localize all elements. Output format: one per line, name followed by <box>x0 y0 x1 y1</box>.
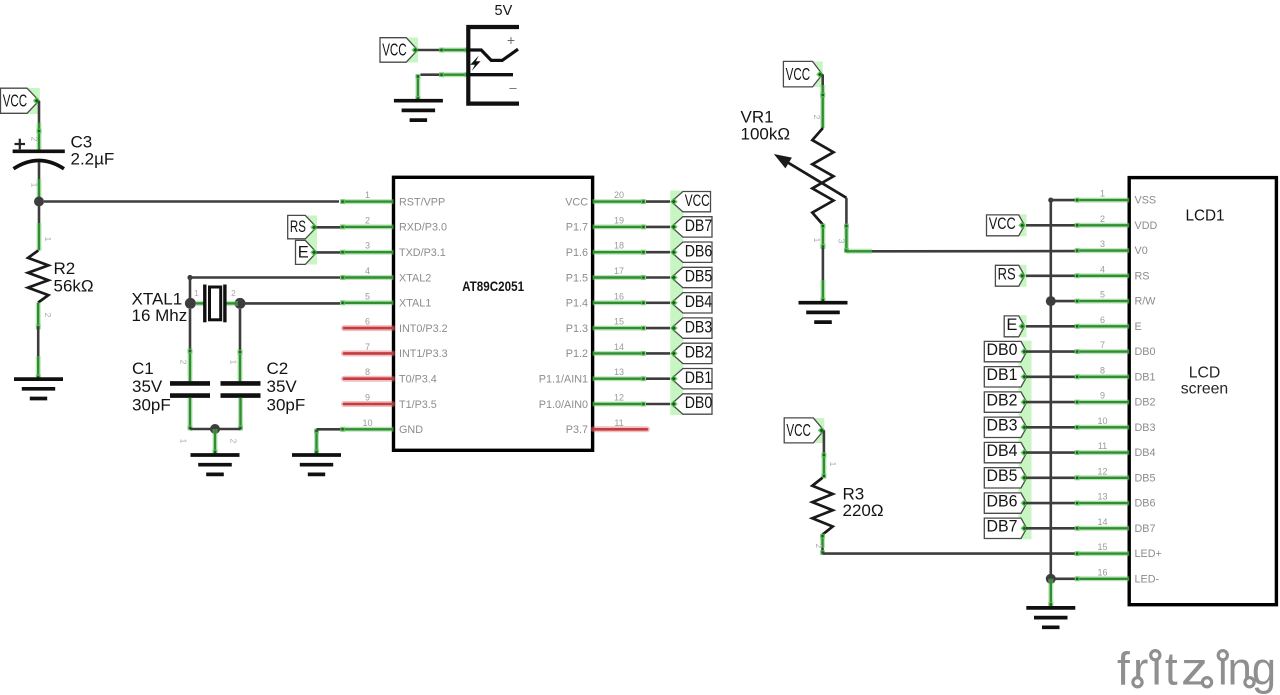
svg-text:XTAL1: XTAL1 <box>399 298 431 310</box>
svg-text:E: E <box>1006 316 1017 334</box>
svg-text:1: 1 <box>365 190 370 200</box>
svg-text:E: E <box>1135 321 1142 333</box>
svg-text:VCC: VCC <box>786 64 811 84</box>
svg-text:1: 1 <box>229 360 239 365</box>
svg-text:12: 12 <box>614 393 624 403</box>
svg-text:DB7: DB7 <box>685 216 713 235</box>
svg-text:1: 1 <box>43 237 53 242</box>
svg-text:11: 11 <box>1098 441 1107 451</box>
svg-text:P1.2: P1.2 <box>566 348 588 360</box>
svg-text:DB6: DB6 <box>1135 498 1156 510</box>
svg-text:E: E <box>298 244 309 262</box>
svg-text:2.2µF: 2.2µF <box>71 149 115 168</box>
svg-text:DB4: DB4 <box>987 441 1018 460</box>
svg-text:220Ω: 220Ω <box>843 501 884 520</box>
svg-text:DB7: DB7 <box>987 517 1018 536</box>
svg-text:12: 12 <box>1097 466 1107 476</box>
svg-text:9: 9 <box>1100 391 1105 401</box>
svg-text:2: 2 <box>30 137 40 142</box>
svg-text:10: 10 <box>1097 416 1107 426</box>
svg-text:INT1/P3.3: INT1/P3.3 <box>399 348 448 360</box>
svg-text:30pF: 30pF <box>132 396 171 415</box>
svg-text:DB1: DB1 <box>1135 371 1156 383</box>
svg-text:V0: V0 <box>1135 245 1148 257</box>
svg-text:LED+: LED+ <box>1135 548 1162 560</box>
svg-text:INT0/P3.2: INT0/P3.2 <box>399 323 448 335</box>
svg-text:1: 1 <box>30 183 40 188</box>
svg-text:13: 13 <box>614 367 624 377</box>
svg-text:18: 18 <box>614 241 624 251</box>
svg-text:DB4: DB4 <box>685 292 713 311</box>
svg-text:DB4: DB4 <box>1135 447 1156 459</box>
svg-text:100kΩ: 100kΩ <box>741 125 791 144</box>
svg-text:13: 13 <box>1097 492 1107 502</box>
svg-text:35V: 35V <box>267 377 298 396</box>
svg-text:1: 1 <box>812 238 822 243</box>
svg-text:DB0: DB0 <box>987 340 1018 359</box>
svg-text:DB5: DB5 <box>1135 472 1156 484</box>
svg-text:P1.1/AIN1: P1.1/AIN1 <box>539 374 588 386</box>
svg-text:30pF: 30pF <box>267 396 306 415</box>
svg-text:DB5: DB5 <box>987 466 1018 485</box>
svg-text:2: 2 <box>43 313 53 318</box>
svg-text:+: + <box>507 32 515 48</box>
svg-text:1: 1 <box>828 462 838 467</box>
svg-text:35V: 35V <box>132 377 163 396</box>
svg-text:3: 3 <box>365 241 370 251</box>
svg-text:DB7: DB7 <box>1135 523 1156 535</box>
svg-text:RXD/P3.0: RXD/P3.0 <box>399 222 447 234</box>
svg-text:RS: RS <box>290 218 306 236</box>
svg-text:1: 1 <box>179 439 189 444</box>
svg-text:T1/P3.5: T1/P3.5 <box>399 399 437 411</box>
svg-text:C2: C2 <box>267 359 289 378</box>
svg-text:VCC: VCC <box>565 196 588 208</box>
svg-text:T0/P3.4: T0/P3.4 <box>399 374 437 386</box>
svg-text:7: 7 <box>365 342 370 352</box>
svg-text:15: 15 <box>614 317 624 327</box>
svg-text:17: 17 <box>614 266 624 276</box>
svg-text:C1: C1 <box>132 359 154 378</box>
svg-text:9: 9 <box>365 393 370 403</box>
svg-text:P1.4: P1.4 <box>566 298 588 310</box>
svg-text:20: 20 <box>614 190 624 200</box>
svg-text:VCC: VCC <box>989 215 1016 233</box>
svg-text:DB3: DB3 <box>987 416 1018 435</box>
svg-text:P1.0/AIN0: P1.0/AIN0 <box>539 399 588 411</box>
svg-text:RS: RS <box>1135 270 1150 282</box>
svg-text:5: 5 <box>365 291 370 301</box>
svg-text:P1.6: P1.6 <box>566 247 588 259</box>
svg-text:DB1: DB1 <box>987 365 1018 384</box>
svg-text:VSS: VSS <box>1135 195 1157 207</box>
svg-text:XTAL2: XTAL2 <box>399 272 431 284</box>
svg-text:16: 16 <box>614 291 624 301</box>
svg-text:DB3: DB3 <box>685 317 713 336</box>
svg-text:1: 1 <box>1100 189 1105 199</box>
svg-text:14: 14 <box>614 342 624 352</box>
svg-text:screen: screen <box>1181 380 1228 397</box>
svg-text:P1.5: P1.5 <box>566 272 588 284</box>
svg-text:LCD1: LCD1 <box>1185 207 1224 224</box>
svg-text:DB6: DB6 <box>987 492 1018 511</box>
svg-text:GND: GND <box>399 424 423 436</box>
svg-text:7: 7 <box>1100 340 1105 350</box>
svg-text:VCC: VCC <box>382 39 407 59</box>
svg-text:3: 3 <box>1100 239 1105 249</box>
svg-text:VCC: VCC <box>685 192 710 210</box>
svg-text:P1.3: P1.3 <box>566 323 588 335</box>
svg-text:DB0: DB0 <box>685 393 713 412</box>
svg-text:DB1: DB1 <box>685 368 713 387</box>
svg-text:RS: RS <box>998 265 1016 283</box>
svg-text:56kΩ: 56kΩ <box>54 277 94 296</box>
svg-text:2: 2 <box>365 215 370 225</box>
svg-text:6: 6 <box>365 317 370 327</box>
svg-text:1: 1 <box>194 288 199 298</box>
svg-text:VCC: VCC <box>3 91 28 111</box>
svg-text:DB2: DB2 <box>987 391 1018 410</box>
svg-text:DB5: DB5 <box>685 267 713 286</box>
svg-text:DB2: DB2 <box>1135 397 1156 409</box>
svg-text:19: 19 <box>614 215 624 225</box>
svg-text:5: 5 <box>1100 290 1105 300</box>
svg-text:DB3: DB3 <box>1135 422 1156 434</box>
svg-text:4: 4 <box>365 266 370 276</box>
svg-text:2: 2 <box>1100 214 1105 224</box>
svg-text:2: 2 <box>812 115 822 120</box>
svg-text:16 Mhz: 16 Mhz <box>132 306 188 325</box>
svg-text:P1.7: P1.7 <box>566 222 588 234</box>
svg-text:5V: 5V <box>495 3 513 19</box>
svg-text:16: 16 <box>1097 567 1107 577</box>
svg-text:2: 2 <box>814 544 824 549</box>
svg-text:3: 3 <box>837 239 847 244</box>
svg-text:14: 14 <box>1097 517 1107 527</box>
svg-text:LED-: LED- <box>1135 573 1160 585</box>
svg-text:R/W: R/W <box>1135 296 1157 308</box>
svg-text:DB6: DB6 <box>685 241 713 260</box>
svg-text:8: 8 <box>1100 365 1105 375</box>
svg-text:11: 11 <box>614 418 623 428</box>
svg-text:10: 10 <box>362 418 372 428</box>
svg-text:DB0: DB0 <box>1135 346 1156 358</box>
svg-text:–: – <box>509 80 517 95</box>
svg-text:DB2: DB2 <box>685 343 713 362</box>
svg-text:LCD: LCD <box>1189 365 1221 382</box>
svg-text:2: 2 <box>231 288 236 298</box>
svg-text:P3.7: P3.7 <box>566 424 588 436</box>
svg-text:6: 6 <box>1100 315 1105 325</box>
svg-text:VDD: VDD <box>1135 220 1158 232</box>
svg-text:RST/VPP: RST/VPP <box>399 196 445 208</box>
svg-text:AT89C2051: AT89C2051 <box>462 279 524 294</box>
svg-text:R2: R2 <box>54 259 76 278</box>
svg-text:TXD/P3.1: TXD/P3.1 <box>399 247 446 259</box>
svg-text:4: 4 <box>1100 264 1105 274</box>
svg-text:2: 2 <box>229 439 239 444</box>
svg-text:15: 15 <box>1097 542 1107 552</box>
svg-text:8: 8 <box>365 367 370 377</box>
svg-text:2: 2 <box>179 360 189 365</box>
svg-text:VCC: VCC <box>786 420 811 440</box>
